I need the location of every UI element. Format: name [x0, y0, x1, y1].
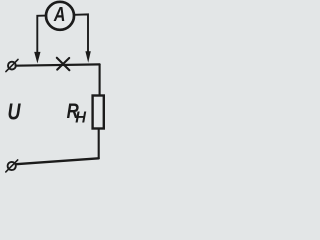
resistor RH: box: [93, 96, 104, 129]
terminal upper (phi): [8, 62, 16, 70]
voltage label U: [8, 99, 22, 125]
wire: ammeter right lead with corner down: [74, 14, 88, 52]
ammeter label A: [53, 3, 65, 25]
resistor label RH: [67, 101, 79, 124]
break mark x on top wire: [57, 58, 70, 70]
arrowhead right probe: [85, 51, 90, 63]
svg-text:A: A: [53, 3, 65, 25]
bottom wire from corner to lower terminal: [16, 158, 99, 164]
svg-text:U: U: [8, 99, 22, 125]
arrowhead left probe: [34, 52, 40, 64]
terminal lower (phi): [8, 162, 16, 170]
wire: ammeter left lead with corner down: [37, 16, 46, 53]
svg-text:H: H: [75, 109, 87, 127]
ammeter A: circle: [46, 2, 74, 30]
wire: right vertical down to resistor: [99, 64, 101, 95]
wire: below resistor down to bottom corner: [98, 129, 100, 159]
top wire from left terminal to right corner: [16, 64, 100, 65]
